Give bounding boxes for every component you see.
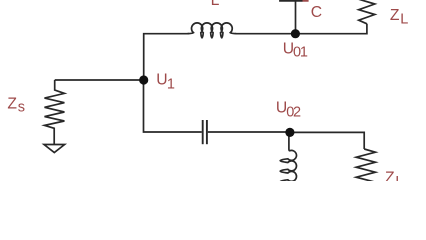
svg-text:02: 02 <box>286 105 301 121</box>
wire inductor to node U01 <box>236 33 296 35</box>
svg-text:1: 1 <box>167 77 175 93</box>
capacitor C bottom plate <box>279 0 302 2</box>
inductor L <box>188 23 237 38</box>
ground arrow below Zs <box>44 145 65 153</box>
resistor Zs <box>45 80 65 144</box>
svg-text:Z: Z <box>385 169 395 181</box>
svg-text:Z: Z <box>7 96 17 113</box>
inductor vertical below U02 <box>280 132 296 192</box>
svg-text:C: C <box>311 4 322 21</box>
node U1 <box>139 75 148 84</box>
node U02 <box>285 128 294 137</box>
svg-text:Z: Z <box>390 7 400 24</box>
svg-text:s: s <box>18 99 25 115</box>
node U01 <box>291 29 300 38</box>
wire capacitor to node U02 <box>208 131 290 133</box>
wire U1 down to bottom rail <box>144 80 202 132</box>
wire from Zs to node U1 <box>55 79 144 81</box>
resistor ZL top <box>359 0 375 24</box>
resistor ZL bottom <box>356 149 375 182</box>
svg-text:01: 01 <box>293 45 308 61</box>
wire node U01 to ZL top resistor <box>295 24 367 34</box>
svg-text:L: L <box>395 174 403 181</box>
svg-text:L: L <box>400 12 408 28</box>
red mark at plate right end <box>303 0 309 2</box>
capacitor bottom-left plate <box>202 120 204 144</box>
svg-text:L: L <box>211 0 220 9</box>
wire U1 up to top rail <box>144 34 189 80</box>
wire node U01 up to capacitor C <box>295 2 297 34</box>
capacitor bottom-right plate <box>206 120 208 144</box>
wire U02 to ZL bottom resistor <box>290 132 364 149</box>
